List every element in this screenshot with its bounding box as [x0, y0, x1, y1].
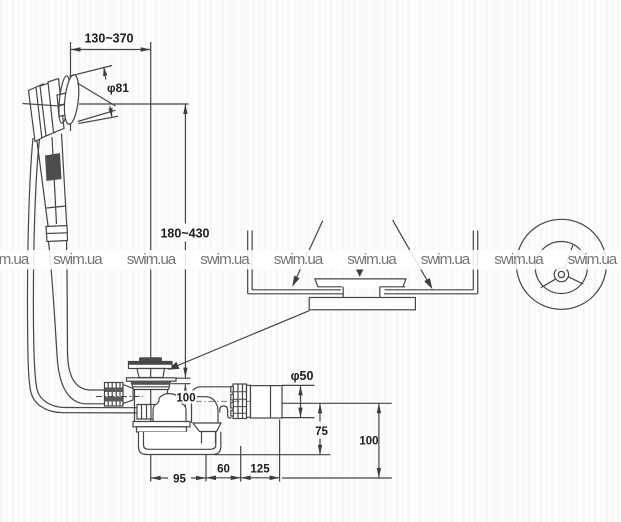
bottom reference line right — [282, 477, 392, 479]
pop-up cable conduit (outer loop) — [27, 138, 137, 413]
shower face rim ellipse — [62, 74, 81, 125]
extension verticals for bottom dims — [206, 420, 280, 482]
outlet compression nut (ribbed) — [233, 384, 247, 419]
dimension phi50 extension lines — [282, 385, 315, 417]
svg-text:125: 125 — [250, 464, 270, 476]
shower handle — [37, 134, 67, 229]
bathtub bottom right — [384, 290, 478, 294]
dimension 130~370 arrows — [71, 47, 81, 52]
dimension 75 line — [319, 403, 321, 454]
hose nut under handle — [46, 226, 68, 242]
flange lip bottoms — [318, 286, 406, 288]
phi81 bottom extension line — [79, 116, 119, 123]
svg-text:swim.ua: swim.ua — [568, 251, 618, 268]
trap pan inner — [144, 432, 216, 450]
leader arrow left into tub — [295, 221, 323, 282]
watermark band — [0, 250, 621, 270]
shower head middle plate — [40, 83, 56, 137]
pipe axis reference line — [282, 402, 392, 404]
dimension phi50 line — [300, 385, 302, 417]
drain flange in tub (trapezoid) — [315, 279, 406, 287]
svg-text:swim.ua: swim.ua — [0, 251, 30, 268]
shower hose (inner loop) — [49, 242, 105, 404]
extension tick at bottom of 100 dim — [182, 443, 206, 445]
bottom chained dimension line 125 — [241, 477, 280, 479]
nut collar — [247, 385, 251, 417]
waste body ribbed top — [131, 381, 171, 389]
center marker triangle on flange — [356, 269, 364, 277]
svg-text:swim.ua: swim.ua — [127, 251, 177, 268]
pop-up plug cap — [139, 357, 162, 361]
svg-text:180~430: 180~430 — [160, 227, 209, 241]
outlet pipe centerline dash — [196, 400, 250, 402]
horizontal centerline from shower head — [79, 103, 189, 105]
svg-text:swim.ua: swim.ua — [494, 251, 544, 268]
waste body bell profile — [153, 394, 186, 422]
centerline dash through nut — [96, 396, 143, 398]
hose connection nut (ribbed) — [105, 383, 124, 407]
tailpipe into trap pan — [202, 432, 216, 444]
svg-text:φ81: φ81 — [107, 81, 129, 95]
dimension text 100 (waste height, drawn above assembly) — [176, 391, 196, 405]
bathtub bottom left — [248, 290, 343, 294]
svg-text:100: 100 — [359, 436, 378, 448]
dimension 75 bottom extension line — [214, 454, 331, 456]
bathtub right wall — [473, 231, 477, 294]
svg-text:75: 75 — [315, 426, 328, 438]
outlet elbow outer — [192, 387, 232, 423]
flange reference lines right of plug — [171, 378, 191, 384]
drain hole vertical edges — [343, 287, 380, 298]
svg-text:100: 100 — [176, 393, 195, 405]
svg-text:φ50: φ50 — [291, 369, 314, 383]
trap pan outer — [139, 432, 221, 455]
svg-text:60: 60 — [217, 464, 230, 476]
handle joint line — [47, 206, 66, 208]
phi81 dimension line with arrows — [104, 67, 112, 117]
bottom chained dimension line 60 — [206, 477, 241, 479]
phi81 top extension line — [70, 66, 113, 77]
drain cover top view: outer circle — [516, 219, 606, 309]
shower head body plate — [48, 79, 64, 133]
svg-text:swim.ua: swim.ua — [53, 251, 103, 268]
svg-text:swim.ua: swim.ua — [200, 251, 250, 268]
leader from under-tub body to pop-up plug — [177, 311, 310, 366]
handle grip dark band — [45, 153, 62, 181]
drain cover hub — [554, 267, 568, 281]
pop-up rod fitting — [137, 405, 155, 420]
shower head pivot blocks — [57, 93, 69, 106]
under-tub drain body rectangle — [309, 298, 415, 310]
outlet pipe phi50 — [251, 386, 283, 418]
waste flange plate — [127, 378, 177, 381]
dimension 100 (outlet depth) line — [378, 403, 380, 478]
head centerline tick — [23, 104, 58, 106]
drain cover spokes — [565, 245, 573, 268]
dimension 100 (waste height) line — [184, 384, 186, 444]
taper to overflow body — [123, 385, 133, 404]
washer bands under body — [133, 422, 190, 427]
leader arrow right into tub — [393, 220, 430, 284]
shower head bracket plate — [29, 84, 49, 142]
svg-text:swim.ua: swim.ua — [421, 251, 471, 268]
dimension 130~370 extension line left — [70, 42, 72, 131]
shower face back ellipse — [57, 75, 72, 123]
waste body — [135, 390, 168, 422]
dimension 130~370 line — [71, 49, 151, 51]
long vertical extension / centerline of waste (x=150.6) — [150, 42, 152, 482]
spray cone lines — [77, 83, 115, 122]
svg-text:95: 95 — [173, 474, 186, 486]
bottom chained dimension line 95 — [151, 477, 206, 479]
svg-text:swim.ua: swim.ua — [274, 251, 324, 268]
drain cover inner circle — [535, 242, 587, 294]
dimension 180~430 line (with text gap and band) — [184, 104, 186, 378]
svg-text:130~370: 130~370 — [84, 32, 133, 46]
outlet elbow inner — [197, 397, 218, 423]
elbow bell washer — [193, 423, 221, 432]
bathtub left wall — [248, 231, 252, 294]
outlet pipe bottom edge and u-turn seam — [220, 406, 232, 418]
svg-text:swim.ua: swim.ua — [347, 251, 397, 268]
plug skirt — [137, 369, 165, 378]
